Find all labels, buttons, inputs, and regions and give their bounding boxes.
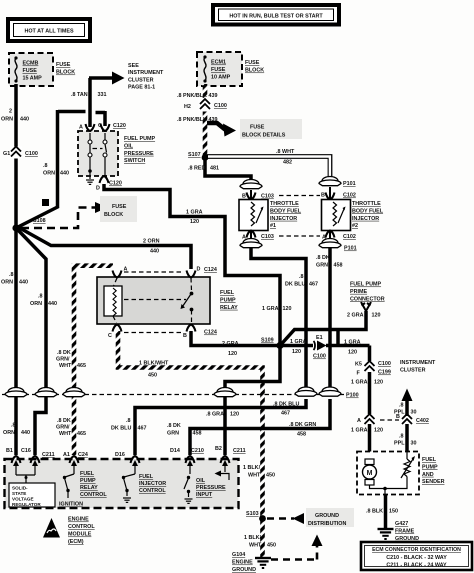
svg-text:PUMP: PUMP (80, 478, 96, 484)
svg-text:OIL: OIL (196, 478, 206, 484)
svg-text:P100: P100 (346, 393, 359, 399)
ECM pin arrows (13, 460, 228, 475)
svg-text:C124: C124 (204, 267, 217, 273)
wire .8 BLK 150 to G427 (366, 494, 398, 528)
svg-text:2 GRA: 2 GRA (347, 313, 364, 319)
bent arrow inside ECM right (215, 471, 230, 481)
svg-text:GRN/: GRN/ (56, 357, 70, 363)
svg-text:SOLID-: SOLID- (12, 486, 28, 491)
wire .8 ORN 440 from S108 to ECM B1 (1, 228, 30, 455)
svg-text:15 AMP: 15 AMP (23, 76, 43, 82)
ECM connector identification box (361, 542, 472, 570)
throttle body fuel injector 2 box (322, 200, 351, 231)
bulkhead dash line (2, 394, 346, 396)
svg-text:FUEL PUMP: FUEL PUMP (350, 282, 381, 288)
svg-text:.8: .8 (11, 423, 16, 429)
svg-text:OIL: OIL (124, 143, 134, 149)
instrument cluster text (400, 360, 436, 373)
ground inside oil switch (86, 172, 94, 184)
engine control module ECM box (5, 459, 239, 508)
svg-text:ENGINE: ENGINE (68, 517, 89, 523)
engine control module text (68, 517, 95, 546)
svg-text:A1: A1 (63, 452, 70, 458)
fuel pump prime connector text (350, 282, 385, 303)
injector1 pin B (242, 190, 274, 200)
svg-text:C100: C100 (378, 361, 391, 367)
svg-text:120: 120 (374, 428, 383, 434)
svg-text:C102: C102 (343, 234, 356, 240)
svg-text:H2: H2 (184, 104, 191, 110)
svg-text:PPL: PPL (394, 410, 405, 416)
node S103 (246, 511, 266, 522)
svg-text:10 AMP: 10 AMP (211, 75, 231, 81)
svg-text:BLOCK: BLOCK (245, 68, 264, 74)
injector2 pin B (321, 187, 356, 200)
svg-text:A: A (357, 418, 361, 424)
connector G1 C100 on wire (3, 147, 38, 159)
injector 1 text (270, 201, 302, 229)
grommet P100 on DK GRN wire (319, 387, 359, 399)
svg-text:BLOCK: BLOCK (104, 212, 123, 218)
svg-text:WHT: WHT (249, 543, 262, 549)
svg-text:FUEL PUMP: FUEL PUMP (124, 136, 155, 142)
svg-text:C100: C100 (313, 354, 326, 360)
ESD triangle symbol (43, 518, 60, 538)
svg-text:PAGE 81-1: PAGE 81-1 (128, 85, 155, 91)
svg-text:D: D (197, 267, 201, 273)
dashed arrow from S108 to FUSE BLOCK note (21, 196, 137, 228)
svg-text:D: D (96, 186, 100, 192)
injector2 pin A (322, 231, 356, 241)
svg-text:B2: B2 (215, 446, 222, 452)
svg-text:PUMP: PUMP (220, 297, 236, 303)
svg-text:INSTRUMENT: INSTRUMENT (128, 70, 164, 76)
svg-text:440: 440 (19, 280, 28, 286)
svg-text:AND: AND (422, 472, 434, 478)
ECM pin labels row (6, 446, 246, 458)
svg-text:CONTROL: CONTROL (68, 524, 95, 530)
svg-text:150: 150 (389, 509, 398, 515)
svg-text:HOT IN RUN, BULB TEST OR START: HOT IN RUN, BULB TEST OR START (229, 13, 323, 19)
svg-text:IGNITION: IGNITION (59, 502, 83, 508)
svg-text:30: 30 (411, 410, 417, 416)
svg-text:.8: .8 (399, 403, 404, 409)
grommet on DK BLU wire (295, 387, 317, 396)
svg-text:120: 120 (374, 380, 383, 386)
svg-text:FRAME: FRAME (395, 528, 415, 534)
wire .8 TAN 331 with arrow to instrument cluster (71, 72, 125, 128)
throttle body fuel injector 1 box (239, 200, 268, 231)
svg-text:.8 DK BLU: .8 DK BLU (273, 402, 299, 408)
node S107 (188, 152, 208, 161)
svg-text:C102: C102 (343, 193, 356, 199)
svg-text:.8: .8 (38, 294, 43, 300)
svg-text:INSTRUMENT: INSTRUMENT (400, 360, 436, 366)
dash link C103-C102 top (279, 195, 320, 197)
svg-text:1 GRA: 1 GRA (351, 428, 368, 434)
svg-text:B1: B1 (6, 448, 13, 454)
svg-text:CLUSTER: CLUSTER (400, 367, 426, 373)
wire 2 GRA 120 branch from S109 to fuel pump prime connector (281, 311, 381, 346)
svg-text:FUSE: FUSE (245, 60, 260, 66)
svg-text:STATE: STATE (12, 491, 26, 496)
svg-text:440: 440 (48, 301, 57, 307)
svg-text:.8 RED: .8 RED (188, 166, 205, 172)
svg-text:.8 WHT: .8 WHT (276, 149, 295, 155)
svg-text:MODULE: MODULE (68, 532, 92, 538)
svg-text:SEE: SEE (128, 63, 139, 69)
svg-text:SENDER: SENDER (422, 479, 445, 485)
dashed arrow GROUND DISTRIBUTION (267, 508, 354, 527)
page connector E1 C100 (313, 335, 327, 360)
svg-text:ECM1: ECM1 (211, 60, 226, 66)
svg-text:FUEL: FUEL (422, 457, 437, 463)
svg-text:P101: P101 (343, 181, 356, 187)
svg-text:ECMB: ECMB (23, 61, 39, 67)
svg-text:BODY FUEL: BODY FUEL (270, 208, 302, 214)
svg-text:PRESSURE: PRESSURE (124, 151, 154, 157)
svg-text:120: 120 (348, 350, 357, 356)
svg-text:ORN: ORN (1, 280, 13, 286)
fuse block ECMB FUSE 15 AMP (9, 53, 53, 86)
svg-text:FUEL: FUEL (220, 290, 235, 296)
grommet on B2 wire (214, 388, 236, 397)
svg-text:1 GRA: 1 GRA (186, 210, 203, 216)
svg-text:RELAY: RELAY (220, 305, 238, 311)
svg-text:.8 GRA: .8 GRA (206, 412, 224, 418)
grommet below injector1 A (240, 239, 262, 248)
svg-text:FUSE: FUSE (23, 68, 38, 74)
svg-text:C103: C103 (261, 194, 274, 200)
svg-text:S107: S107 (188, 152, 201, 158)
svg-text:458: 458 (297, 432, 306, 438)
fuel pump relay box (97, 277, 210, 324)
svg-text:.8 DK: .8 DK (57, 350, 71, 356)
wire .8 DK BLU 467 from injector1 A down to ECM D16 (111, 248, 318, 455)
svg-text:C199: C199 (378, 370, 391, 376)
solid state voltage regulator (9, 475, 55, 507)
svg-text:C: C (108, 333, 112, 339)
wire .8 RED 481 to injector 1 feed (188, 159, 251, 182)
svg-text:450: 450 (267, 543, 276, 549)
svg-text:RELAY: RELAY (80, 485, 98, 491)
svg-text:#1: #1 (270, 223, 276, 229)
svg-text:CLUSTER: CLUSTER (128, 77, 154, 83)
svg-text:WHT: WHT (248, 473, 261, 479)
dash link C124 bottom (124, 332, 184, 334)
svg-text:BLOCK DETAILS: BLOCK DETAILS (242, 133, 286, 139)
svg-text:FUSE: FUSE (211, 67, 226, 73)
hatched wire .8 DK GRN/WHT 465 from relay pin A to ECM A1 (56, 266, 113, 455)
svg-text:GRN/: GRN/ (56, 425, 70, 431)
svg-text:C: C (98, 123, 102, 129)
svg-text:FUSE: FUSE (250, 125, 265, 131)
svg-text:482: 482 (283, 160, 292, 166)
fuse block label (right) (245, 60, 264, 74)
svg-text:VOLTAGE: VOLTAGE (12, 497, 34, 502)
svg-text:.8: .8 (299, 274, 304, 280)
svg-text:1 BLK/: 1 BLK/ (243, 465, 261, 471)
svg-text:1 GRA: 1 GRA (351, 380, 368, 386)
wire 2 ORN 440 from S108 to relay pin D (17, 227, 191, 270)
svg-text:B: B (321, 193, 325, 199)
svg-text:465: 465 (77, 363, 86, 369)
wire .8 PPL 30 from C402 B into pump box (394, 424, 417, 452)
node S109 (261, 338, 284, 350)
svg-text:THROTTLE: THROTTLE (270, 201, 299, 207)
svg-text:.8: .8 (9, 272, 14, 278)
oil switch pin labels (79, 123, 126, 131)
svg-text:C24: C24 (78, 452, 88, 458)
svg-text:S103: S103 (246, 511, 259, 517)
svg-text:DK BLU: DK BLU (285, 282, 305, 288)
svg-text:FUEL: FUEL (80, 471, 95, 477)
svg-text:CONNECTOR: CONNECTOR (350, 296, 385, 302)
grommet on B1 wire (5, 388, 27, 397)
svg-text:ENGINE: ENGINE (232, 560, 253, 566)
svg-text:M: M (367, 470, 373, 477)
grommet on A1 wire (63, 388, 85, 397)
svg-text:1 BLK/WHT: 1 BLK/WHT (139, 361, 169, 367)
svg-text:INJECTOR: INJECTOR (270, 216, 297, 222)
svg-text:ORN: ORN (30, 301, 42, 307)
relay coil (104, 278, 122, 323)
fuel pump and sender text (422, 457, 445, 485)
svg-text:C100: C100 (25, 151, 38, 157)
ground G104 (232, 552, 271, 573)
svg-text:.8 DK: .8 DK (316, 255, 330, 261)
note SEE INSTRUMENT CLUSTER PAGE 81-1 (128, 63, 164, 91)
svg-text:GROUND: GROUND (232, 567, 256, 573)
ECM pin entry chevrons (12, 456, 230, 463)
wire 1 GRA 120 from C402 A into pump box (351, 424, 383, 452)
relay pin D (187, 267, 217, 278)
wire .8 DK GRN 458 from injector2 A down to ECM D14 (167, 248, 343, 455)
svg-text:WHT: WHT (59, 431, 72, 437)
injector 2 text (352, 201, 384, 229)
svg-text:.8 TAN: .8 TAN (71, 92, 88, 98)
svg-text:.8: .8 (126, 418, 131, 424)
fuel injector control switch (122, 474, 167, 502)
dash link C402 (380, 419, 399, 421)
grommet P101 below injector2 A (319, 239, 357, 252)
svg-text:DK BLU: DK BLU (111, 426, 131, 432)
oil pressure input switch (184, 476, 226, 504)
svg-text:.8 BLK: .8 BLK (366, 509, 383, 515)
svg-text:FUEL: FUEL (139, 474, 154, 480)
svg-text:THROTTLE: THROTTLE (352, 201, 381, 207)
svg-text:G1: G1 (3, 151, 10, 157)
svg-text:PRIME: PRIME (350, 289, 367, 295)
dashed branch with up arrow at ground bus (271, 535, 323, 560)
svg-text:B: B (242, 194, 246, 200)
svg-text:ORN: ORN (3, 430, 15, 436)
svg-text:1 GRA: 1 GRA (262, 306, 279, 312)
svg-text:S109: S109 (261, 338, 274, 344)
svg-text:C210 - BLACK - 32 WAY: C210 - BLACK - 32 WAY (386, 555, 447, 561)
wire 1 GRA 120 from oil switch D to S109 (104, 184, 292, 345)
svg-text:FUSE: FUSE (56, 62, 71, 68)
fuse block ECM1 FUSE 10 AMP (197, 52, 242, 86)
grommet on injector1 B feed (240, 180, 262, 189)
ground G427 (378, 521, 420, 542)
wire .8 GRA 120 from S109 down to ECM B2 (206, 346, 280, 456)
svg-text:2 ORN: 2 ORN (143, 239, 160, 245)
injector1 pin A (242, 231, 274, 241)
svg-text:120: 120 (283, 306, 292, 312)
svg-text:1 GRA: 1 GRA (290, 339, 307, 345)
wire 2 GRA 120 from relay B to S109 (191, 331, 280, 357)
svg-text:C100: C100 (214, 103, 227, 109)
dash link C124 top (124, 271, 184, 273)
oil switch pin D (96, 176, 122, 192)
svg-text:467: 467 (309, 282, 318, 288)
svg-text:440: 440 (21, 430, 30, 436)
arrow to FUSE BLOCK DETAILS (207, 119, 302, 139)
connector H2 C100 (184, 98, 227, 112)
svg-text:450: 450 (266, 473, 275, 479)
svg-text:DISTRIBUTION: DISTRIBUTION (308, 521, 346, 527)
svg-text:C16: C16 (21, 448, 31, 454)
wire 2 ORN 440 from ECMB fuse down to S108 (1, 84, 29, 228)
svg-text:REGULATOR: REGULATOR (12, 502, 41, 507)
svg-text:K5: K5 (355, 362, 362, 368)
svg-text:(ECM): (ECM) (68, 539, 84, 545)
svg-text:HOT AT ALL TIMES: HOT AT ALL TIMES (24, 29, 74, 35)
svg-text:440: 440 (20, 117, 29, 123)
svg-text:120: 120 (230, 412, 239, 418)
svg-text:467: 467 (138, 426, 147, 432)
relay pin B (183, 325, 217, 340)
wire .8 PNK/BLK 439 hatched from ECM1 fuse to S107 (177, 84, 218, 155)
svg-text:BODY FUEL: BODY FUEL (352, 208, 384, 214)
svg-text:120: 120 (228, 351, 237, 357)
svg-text:GRN: GRN (316, 263, 328, 269)
svg-text:.8 DK GRN: .8 DK GRN (289, 422, 316, 428)
svg-text:C211: C211 (233, 448, 246, 454)
svg-text:.8 PNK/BLK: .8 PNK/BLK (177, 117, 207, 123)
connector C100 C199 K5 F (355, 361, 391, 377)
svg-text:.8: .8 (399, 434, 404, 440)
connector C402 pin A (357, 414, 376, 425)
svg-text:.8 DK: .8 DK (57, 418, 71, 424)
svg-text:PUMP: PUMP (422, 464, 438, 470)
fuel sender variable resistor (383, 452, 415, 494)
fuse block label (left) (56, 62, 75, 76)
svg-text:C211: C211 (42, 452, 55, 458)
svg-text:120: 120 (292, 349, 301, 355)
svg-text:ORN: ORN (43, 171, 55, 177)
svg-text:WHT: WHT (59, 363, 72, 369)
svg-text:C211 - BLACK - 24 WAY: C211 - BLACK - 24 WAY (386, 563, 447, 569)
svg-text:A: A (79, 125, 83, 131)
relay switch (124, 278, 193, 323)
svg-text:INJECTOR: INJECTOR (139, 481, 166, 487)
svg-text:INPUT: INPUT (196, 492, 213, 498)
node S108 (12, 218, 45, 232)
grommet P101 on injector2 B feed (319, 177, 356, 188)
oil switch text (124, 136, 155, 164)
svg-text:B: B (183, 333, 187, 339)
svg-text:PPL: PPL (394, 441, 405, 447)
svg-text:467: 467 (281, 411, 290, 417)
svg-text:1 BLK/: 1 BLK/ (244, 535, 262, 541)
hatched wire 1 BLK/WHT 450 from relay C to S103 and G104 (118, 331, 276, 557)
svg-text:465: 465 (77, 431, 86, 437)
wire .8 WHT 482 (outlined white wire) to injector 2 feed (206, 149, 330, 178)
svg-text:ECM CONNECTOR IDENTIFICATION: ECM CONNECTOR IDENTIFICATION (372, 547, 461, 553)
svg-text:C120: C120 (113, 123, 126, 129)
svg-text:#2: #2 (352, 223, 358, 229)
fuel pump relay control switch + ignition (59, 471, 107, 508)
svg-text:440: 440 (150, 249, 159, 255)
svg-text:G427: G427 (395, 521, 408, 527)
svg-text:CONTROL: CONTROL (139, 488, 166, 494)
svg-text:C402: C402 (416, 418, 429, 424)
svg-text:.8 DK: .8 DK (167, 423, 181, 429)
splice square junction (42, 199, 49, 206)
svg-text:ORN: ORN (1, 117, 13, 123)
svg-text:C120: C120 (109, 181, 122, 187)
svg-text:2 GRA: 2 GRA (222, 341, 239, 347)
wire .8 ORN 440 from branch to oil switch pin C and down to S108 (17, 110, 105, 228)
svg-text:INJECTOR: INJECTOR (352, 216, 379, 222)
grommet on C16 wire (35, 388, 57, 397)
svg-text:120: 120 (372, 313, 381, 319)
oil pressure switch box (78, 124, 118, 176)
fuel pump motor M (363, 459, 386, 489)
connector C402 pin B (396, 414, 429, 424)
svg-text:PRESSURE: PRESSURE (196, 485, 226, 491)
svg-text:30: 30 (411, 441, 417, 447)
fuel pump and sender box (357, 452, 419, 495)
svg-text:SWITCH: SWITCH (124, 158, 145, 164)
svg-text:G104: G104 (232, 552, 245, 558)
wire .8 ORN 440 from S108 to ECM C16 (18, 230, 58, 456)
svg-text:458: 458 (334, 263, 343, 269)
svg-text:458: 458 (193, 431, 202, 437)
dash link C103-C102 bottom (279, 235, 320, 237)
title box HOT IN RUN (213, 5, 339, 25)
svg-text:C210: C210 (191, 448, 204, 454)
svg-text:.8: .8 (43, 163, 48, 169)
svg-text:FUSE: FUSE (112, 204, 127, 210)
title box HOT AT ALL TIMES (8, 19, 90, 41)
svg-text:CONTROL: CONTROL (80, 492, 107, 498)
relay pin A (113, 267, 128, 278)
svg-text:BLOCK: BLOCK (56, 70, 75, 76)
svg-text:450: 450 (148, 373, 157, 379)
relay text (220, 290, 238, 311)
svg-text:D16: D16 (115, 452, 125, 458)
wire 1 GRA 120 from C100 to C402 pin A (351, 372, 383, 415)
svg-text:C103: C103 (261, 234, 274, 240)
wire .8 PPL 30 up-arrow to instrument cluster (394, 389, 417, 417)
relay pin C (108, 325, 122, 340)
svg-text:E1: E1 (316, 335, 323, 341)
svg-text:481: 481 (210, 166, 219, 172)
wire 1 GRA 120 from S109 right through E1 C100 to cluster drop (280, 339, 370, 361)
svg-text:440: 440 (60, 171, 69, 177)
svg-text:331: 331 (98, 92, 107, 98)
fuel pump prime connector Y (361, 302, 371, 311)
svg-text:2: 2 (9, 109, 12, 115)
svg-text:C124: C124 (204, 330, 217, 336)
svg-text:GROUND: GROUND (315, 513, 339, 519)
svg-text:120: 120 (190, 219, 199, 225)
svg-text:D14: D14 (170, 448, 180, 454)
svg-text:1 GRA: 1 GRA (344, 340, 361, 346)
